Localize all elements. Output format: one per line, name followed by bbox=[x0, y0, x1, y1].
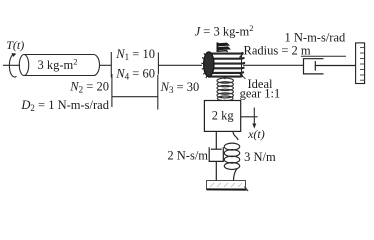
damper 1 N-m-s/rad (rotational, right) bbox=[304, 59, 356, 74]
svg-text:T(t): T(t) bbox=[6, 38, 24, 52]
svg-text:Radius = 2 m: Radius = 2 m bbox=[244, 44, 311, 58]
svg-text:2 N-s/m: 2 N-s/m bbox=[167, 148, 208, 162]
gear J body with ribs bbox=[208, 53, 245, 77]
wire countershaft D2 bbox=[112, 96, 158, 98]
damper 2 N-s/m bbox=[209, 131, 223, 180]
ground block bbox=[207, 181, 249, 192]
gear J right edge bbox=[241, 53, 243, 78]
svg-text:3 N/m: 3 N/m bbox=[244, 150, 276, 164]
wire shaft from N4 to gear J bbox=[158, 64, 202, 66]
svg-text:N1 = 10: N1 = 10 bbox=[115, 47, 155, 62]
svg-text:1 N-m-s/rad: 1 N-m-s/rad bbox=[285, 30, 346, 44]
rack / gear disc at far right bbox=[356, 43, 365, 84]
wire shaft from gear J to damper bbox=[243, 64, 304, 66]
spring between gear J and mass (ideal gear 1:1 mesh) bbox=[217, 78, 233, 101]
svg-text:2 kg: 2 kg bbox=[212, 108, 235, 122]
gear N4 (upper) and gear N3 (lower) vertical line bbox=[157, 53, 159, 75]
wire input shaft axis left bbox=[3, 64, 20, 66]
leader arrow from Radius label to gear rim bbox=[241, 54, 244, 56]
spring 3 N/m bbox=[224, 131, 239, 180]
wire shaft stub to gear N1 bbox=[100, 64, 112, 66]
svg-text:N2 = 20: N2 = 20 bbox=[69, 80, 109, 95]
inertia cylinder 3 kg-m2 bbox=[24, 55, 100, 76]
svg-text:N3 = 30: N3 = 30 bbox=[160, 80, 200, 95]
gear J left end face (dark) bbox=[201, 52, 214, 78]
leader arrow from Ideal gear label to mesh bbox=[242, 75, 246, 79]
leader line for 1 N-m-s/rad label bbox=[301, 55, 346, 57]
torque source arrow T(t) bbox=[9, 54, 16, 77]
svg-text:N4 = 60: N4 = 60 bbox=[115, 67, 155, 82]
svg-text:3 kg-m2: 3 kg-m2 bbox=[38, 56, 78, 72]
small coil on top of gear J bbox=[218, 42, 230, 52]
gear N1 (upper) and gear N2 (lower) vertical line bbox=[110, 52, 112, 78]
svg-text:x(t): x(t) bbox=[247, 127, 265, 141]
svg-text:gear 1:1: gear 1:1 bbox=[240, 87, 281, 101]
svg-text:D2 = 1 N-m-s/rad: D2 = 1 N-m-s/rad bbox=[20, 98, 109, 113]
mass 2 kg bbox=[204, 101, 240, 132]
displacement arrow x(t) bbox=[241, 108, 258, 125]
svg-text:J = 3 kg-m2: J = 3 kg-m2 bbox=[195, 23, 254, 39]
